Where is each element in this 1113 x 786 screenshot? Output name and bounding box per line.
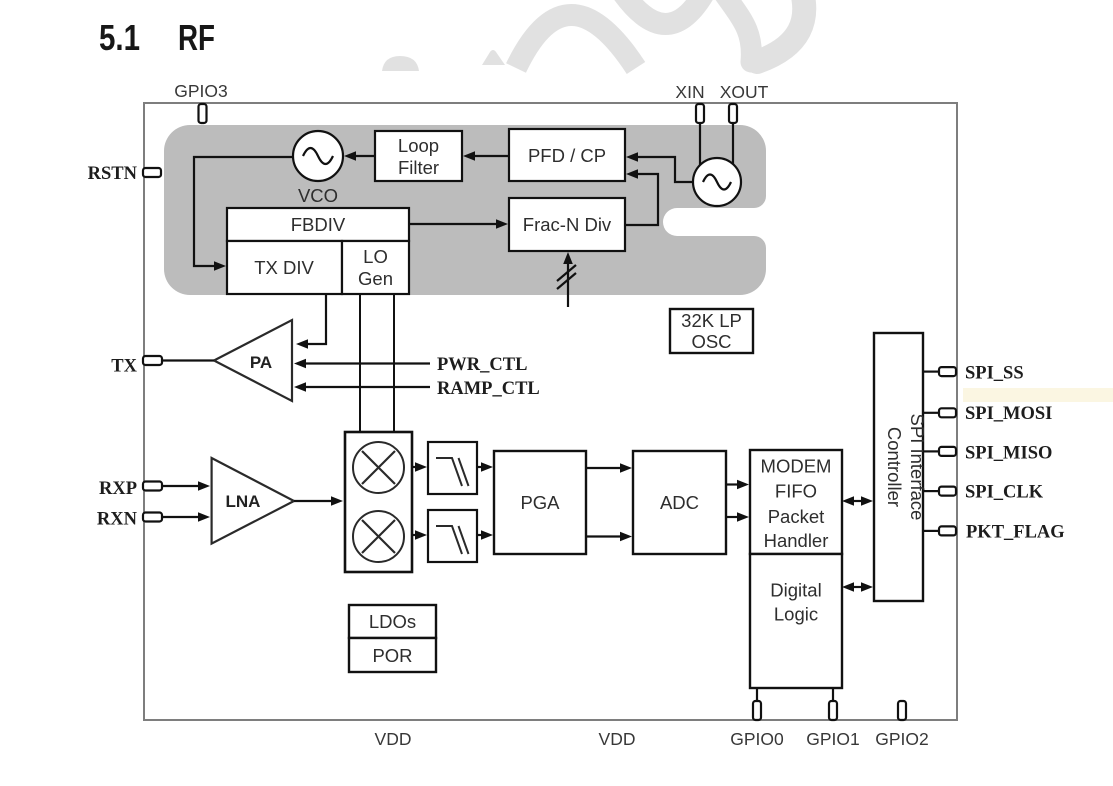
wire SPI to SPI_MOSI pin xyxy=(923,412,939,414)
svg-text:LO: LO xyxy=(363,246,388,267)
wire crystal to PFD/CP xyxy=(637,157,693,182)
svg-text:Packet: Packet xyxy=(768,506,825,527)
svg-text:PGA: PGA xyxy=(520,492,560,513)
crystal oscillator xyxy=(693,158,741,206)
svg-text:POR: POR xyxy=(372,645,412,666)
svg-text:SPI_MOSI: SPI_MOSI xyxy=(965,404,1052,424)
oscillator VCO xyxy=(293,131,343,181)
wire XOUT to crystal xyxy=(732,123,734,165)
filter I box xyxy=(428,442,477,494)
pin XIN xyxy=(696,104,704,123)
pin TX xyxy=(143,356,162,365)
pin SPI_MISO xyxy=(939,447,956,456)
watermark valley stroke xyxy=(618,0,708,24)
wire Digital Logic to GPIO0 xyxy=(756,688,758,701)
svg-text:GPIO1: GPIO1 xyxy=(806,729,860,749)
wire VCO feedback to TX DIV xyxy=(194,157,293,266)
wire TX pin to PA xyxy=(162,359,214,361)
box POR xyxy=(349,638,436,672)
svg-text:Filter: Filter xyxy=(398,157,439,178)
svg-text:Gen: Gen xyxy=(358,268,393,289)
svg-text:RAMP_CTL: RAMP_CTL xyxy=(437,379,540,399)
svg-text:Loop: Loop xyxy=(398,135,439,156)
svg-text:TX DIV: TX DIV xyxy=(254,257,314,278)
watermark wedge xyxy=(482,50,505,65)
bidir wire Digital Logic to SPI xyxy=(853,586,863,588)
svg-text:5.1: 5.1 xyxy=(99,17,140,58)
svg-text:VDD: VDD xyxy=(599,729,636,749)
pin GPIO2 xyxy=(898,701,906,720)
svg-text:OSC: OSC xyxy=(691,331,731,352)
svg-text:SPI_SS: SPI_SS xyxy=(965,364,1024,384)
svg-text:GPIO0: GPIO0 xyxy=(730,729,784,749)
highlight stripe xyxy=(963,388,1113,402)
wire ADC to MODEM upper xyxy=(726,483,737,485)
pin PKT_FLAG xyxy=(939,526,956,535)
mixer box xyxy=(345,432,412,572)
pin SPI_CLK xyxy=(939,487,956,496)
box LDOs xyxy=(349,605,436,638)
pin RXP xyxy=(143,482,162,491)
chip outline xyxy=(144,103,957,720)
pin SPI_SS xyxy=(939,367,956,376)
svg-text:TX: TX xyxy=(111,357,137,377)
pin RXN xyxy=(143,513,162,522)
wire LNA to mixer box xyxy=(294,500,331,502)
svg-text:RF: RF xyxy=(178,17,215,58)
svg-text:FIFO: FIFO xyxy=(775,481,817,502)
filter Q box xyxy=(428,510,477,562)
svg-text:VCO: VCO xyxy=(298,185,338,206)
svg-text:SPI_CLK: SPI_CLK xyxy=(965,483,1044,503)
box SPI Interface Controller xyxy=(874,333,923,601)
box PGA xyxy=(494,451,586,554)
wire Frac-N Div to PFD/CP xyxy=(625,174,658,225)
svg-text:XOUT: XOUT xyxy=(720,82,769,102)
svg-text:XIN: XIN xyxy=(675,82,704,102)
amplifier LNA xyxy=(212,458,294,544)
wire SPI to SPI_MISO pin xyxy=(923,450,939,452)
wire TX DIV to PA xyxy=(307,294,326,344)
wire RAMP_CTL to PA xyxy=(306,386,430,388)
svg-text:RSTN: RSTN xyxy=(88,164,138,184)
svg-text:32K LP: 32K LP xyxy=(681,310,742,331)
box FBDIV xyxy=(227,208,409,241)
wire mixer I to filter I xyxy=(412,466,415,468)
PLL analog region (gray) xyxy=(164,125,766,295)
wire RXN to LNA xyxy=(162,516,198,518)
wire SPI to SPI_SS pin xyxy=(923,371,939,373)
box MODEM FIFO Packet Handler xyxy=(750,450,842,554)
wire PFD/CP to Loop Filter xyxy=(475,155,509,157)
svg-text:SPI_MISO: SPI_MISO xyxy=(965,444,1052,464)
wire filter Q to PGA xyxy=(477,534,481,536)
svg-text:GPIO3: GPIO3 xyxy=(174,81,228,101)
wire PWR_CTL to PA xyxy=(306,362,430,364)
svg-text:RXP: RXP xyxy=(99,479,137,499)
wire SPI to SPI_CLK pin xyxy=(923,490,939,492)
watermark crescent stroke xyxy=(757,0,804,62)
wire filter I to PGA xyxy=(477,466,481,468)
amplifier PA xyxy=(214,320,292,401)
watermark hump stroke xyxy=(516,15,636,68)
svg-text:PWR_CTL: PWR_CTL xyxy=(437,355,527,375)
pin SPI_MOSI xyxy=(939,408,956,417)
wire SPI to PKT_FLAG pin xyxy=(923,530,939,532)
svg-text:Controller: Controller xyxy=(884,427,905,507)
watermark dome xyxy=(382,56,419,71)
wire LO Gen to mixers right xyxy=(393,294,395,432)
wire LO Gen to mixers left xyxy=(359,294,361,432)
box LO Gen xyxy=(342,241,409,294)
wire XIN to crystal xyxy=(699,123,701,166)
clock input to Frac-N Div xyxy=(567,263,569,307)
svg-text:VDD: VDD xyxy=(375,729,412,749)
wire PGA to ADC lower xyxy=(586,535,620,537)
box Loop Filter xyxy=(375,131,462,181)
pin XOUT xyxy=(729,104,737,123)
pin GPIO1 xyxy=(829,701,837,720)
svg-text:PA: PA xyxy=(250,353,272,372)
box ADC xyxy=(633,451,726,554)
pin GPIO3 xyxy=(199,104,207,123)
svg-text:Frac-N Div: Frac-N Div xyxy=(523,214,612,235)
box Digital Logic xyxy=(750,554,842,688)
watermark tail stroke xyxy=(716,0,751,62)
svg-text:Handler: Handler xyxy=(764,530,829,551)
box PFD / CP xyxy=(509,129,625,181)
wire Loop Filter to VCO xyxy=(355,155,375,157)
svg-text:Digital: Digital xyxy=(770,580,821,601)
svg-text:LNA: LNA xyxy=(226,492,261,511)
svg-text:FBDIV: FBDIV xyxy=(291,214,346,235)
svg-text:LDOs: LDOs xyxy=(369,611,416,632)
box Frac-N Div xyxy=(509,198,625,251)
pin RSTN xyxy=(143,168,161,177)
svg-text:Logic: Logic xyxy=(774,604,818,625)
svg-text:MODEM: MODEM xyxy=(761,456,832,477)
wire PGA to ADC upper xyxy=(586,467,620,469)
bidir wire MODEM to SPI xyxy=(853,500,863,502)
box 32K LP OSC xyxy=(670,309,753,353)
svg-text:ADC: ADC xyxy=(660,492,699,513)
wire mixer Q to filter Q xyxy=(412,534,415,536)
wire RXP to LNA xyxy=(162,485,198,487)
svg-text:RXN: RXN xyxy=(97,510,138,530)
svg-text:PFD / CP: PFD / CP xyxy=(528,145,606,166)
svg-text:SPI Interface: SPI Interface xyxy=(907,414,928,521)
mixer Q xyxy=(353,511,404,562)
bus slash marks xyxy=(557,265,576,289)
box TX DIV xyxy=(227,241,342,294)
wire Digital Logic to GPIO1 xyxy=(832,688,834,701)
wire FBDIV to Frac-N Div xyxy=(409,223,497,225)
wire ADC to MODEM lower xyxy=(726,516,737,518)
svg-text:GPIO2: GPIO2 xyxy=(875,729,929,749)
mixer I xyxy=(353,442,404,493)
svg-text:PKT_FLAG: PKT_FLAG xyxy=(966,523,1065,543)
pin GPIO0 xyxy=(753,701,761,720)
